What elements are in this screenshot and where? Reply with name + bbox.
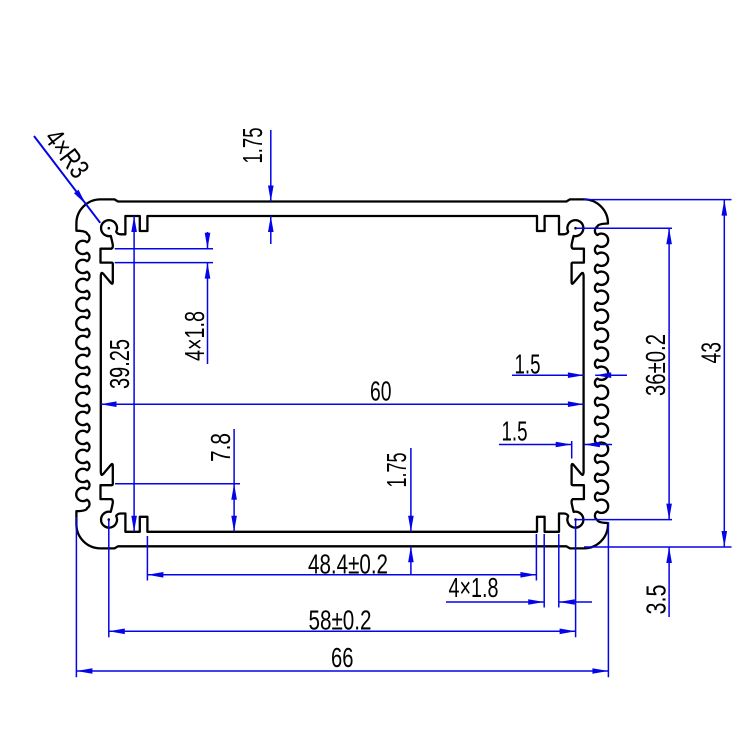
svg-text:1.75: 1.75 (237, 128, 268, 164)
leader 4xR3 corner radius (34, 136, 100, 223)
dimension 39.25 inner height (133, 216, 135, 532)
svg-text:39.25: 39.25 (104, 339, 135, 389)
svg-text:3.5: 3.5 (641, 585, 672, 615)
screw boss centre dot top-right (574, 227, 577, 230)
dimension 4x1.8 floor slots (543, 534, 545, 608)
screw boss centre dot top-left (108, 227, 111, 230)
dimension 36±0.2 boss spacing (576, 227, 672, 229)
screw boss centre dot bottom-right (574, 518, 577, 521)
dimension 58±0.2 boss spacing horizontal (108, 520, 110, 638)
dimension 4x1.8 side-wall notches (115, 248, 213, 250)
svg-text:4×1.8: 4×1.8 (449, 572, 499, 603)
svg-text:48.4±0.2: 48.4±0.2 (308, 549, 388, 580)
dimension 3.5 boss to bottom (668, 547, 670, 617)
svg-text:1.5: 1.5 (502, 416, 528, 447)
dimension 1.5 rib depth (499, 444, 572, 446)
enclosure profile inner contour with screw bosses (101, 216, 584, 532)
dimension 43 overall height (584, 199, 732, 201)
dimension 66 overall width (75, 517, 77, 677)
svg-text:58±0.2: 58±0.2 (309, 605, 372, 636)
dimension 1.5 right wall thickness (512, 374, 584, 376)
svg-text:1.75: 1.75 (381, 453, 412, 488)
enclosure profile outer contour with heatsink fins (76, 199, 608, 548)
svg-text:7.8: 7.8 (205, 433, 236, 462)
svg-text:43: 43 (696, 342, 727, 364)
svg-text:1.5: 1.5 (515, 349, 541, 380)
dimension 60 inner width (101, 403, 584, 405)
dimension 1.75 bottom wall thickness (410, 448, 412, 532)
dimension 48.4±0.2 floor slot span (146, 536, 148, 581)
dimension 1.75 top wall thickness (270, 130, 272, 202)
svg-text:36±0.2: 36±0.2 (640, 334, 671, 396)
screw boss centre dot bottom-left (108, 518, 111, 521)
svg-text:66: 66 (331, 642, 354, 673)
svg-text:60: 60 (370, 376, 392, 407)
svg-text:4×1.8: 4×1.8 (179, 311, 210, 361)
dimension 7.8 bottom-left notch to floor (115, 483, 240, 485)
